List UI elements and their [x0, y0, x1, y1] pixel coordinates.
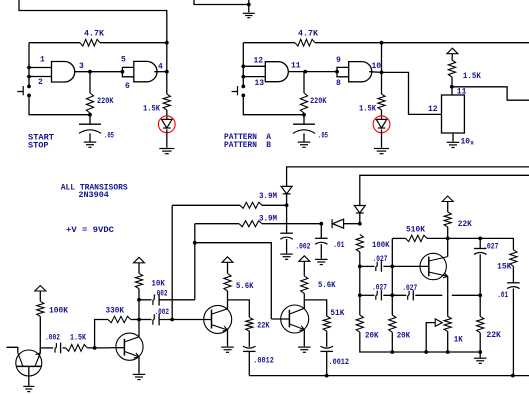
junction capsline n2	[390, 293, 394, 297]
capacitor C .01 right	[507, 283, 520, 289]
svg-text:1K: 1K	[454, 335, 463, 344]
resistor R 1.5K left	[163, 94, 170, 110]
svg-text:22K: 22K	[458, 220, 472, 229]
wire 15K to cap	[512, 266, 514, 283]
junction pin3 node	[88, 70, 92, 74]
wire 3.9M-2 vertical	[194, 224, 196, 300]
wire 10K to node	[138, 289, 140, 300]
svg-text:100K: 100K	[49, 306, 68, 315]
junction bus n4	[478, 350, 482, 354]
wire 4.7K R2 line	[243, 42, 295, 44]
junction .01 node	[319, 222, 323, 226]
wire .002 to ground	[286, 239, 288, 253]
switch S2 contact bottom	[241, 94, 245, 98]
resistor R 1.5K right	[378, 94, 385, 110]
svg-text:4.7K: 4.7K	[298, 30, 318, 39]
wire pin13 stub	[243, 76, 265, 78]
svg-text:STOP: STOP	[28, 141, 49, 150]
resistor R 22K q3 branch	[246, 317, 253, 331]
junction pin2 node	[27, 75, 31, 79]
wire 20K-2 bottom	[391, 332, 393, 352]
wire cap1 lead	[89, 115, 91, 125]
svg-text:220K: 220K	[310, 97, 327, 106]
wire Q1 base stem	[28, 366, 30, 386]
capacitor C .002 osc bottom	[153, 314, 159, 326]
capacitor C .027 base	[376, 261, 382, 272]
resistor R 5.6K first	[224, 273, 231, 291]
wire cap2 lead	[303, 115, 305, 125]
wire 1.5K to box	[451, 77, 453, 95]
resistor R 22K top	[444, 212, 451, 227]
wire Q4 base	[271, 318, 289, 320]
svg-text:22K: 22K	[486, 331, 501, 340]
transistor Q3	[204, 305, 232, 333]
wire .01 to ground	[320, 244, 322, 259]
ground Q3	[221, 347, 234, 352]
svg-text:10: 10	[372, 62, 382, 71]
capacitor C .027 couple1	[376, 290, 382, 300]
wire cap2 to ground	[303, 133, 305, 142]
wire capsline seg1	[360, 294, 375, 296]
resistor R 20K first	[356, 315, 363, 332]
wire capsline seg4	[452, 294, 480, 296]
wire 1K bottom	[447, 331, 449, 352]
wire pot wiper	[426, 323, 435, 352]
svg-text:20K: 20K	[397, 331, 411, 340]
wire right input vertical	[242, 43, 244, 86]
svg-text:.002: .002	[295, 242, 310, 251]
svg-text:.0012: .0012	[329, 358, 350, 367]
switch S1 contact bottom	[27, 94, 31, 98]
wire 22K to node	[447, 227, 449, 238]
ground top-center	[243, 13, 255, 17]
svg-text:510K: 510K	[406, 226, 425, 235]
wire cap4 lead	[139, 299, 152, 301]
potentiometer box 10K	[442, 95, 465, 133]
svg-text:.027: .027	[402, 284, 417, 293]
svg-text:10x: 10x	[461, 137, 475, 146]
junction capsline n1	[358, 293, 362, 297]
svg-text:330K: 330K	[106, 306, 125, 315]
wire cap5 right	[159, 319, 211, 321]
junction pin4 node	[165, 70, 169, 74]
junction bus n1	[390, 350, 394, 354]
wire 20K-1 bottom	[360, 332, 393, 352]
ground pot box	[447, 142, 460, 147]
junction bus n2	[424, 350, 428, 354]
svg-text:.01: .01	[333, 241, 345, 250]
wire bottom rail	[249, 375, 529, 377]
wire Q1 right pin	[39, 348, 41, 353]
capacitor C .027 couple2	[408, 290, 414, 300]
+V arrow 10K	[134, 257, 145, 263]
ground cap1	[84, 142, 97, 147]
junction cap1 node	[88, 113, 92, 117]
wire 4.7K R1 line	[29, 42, 80, 44]
wire cap1 to ground	[89, 133, 91, 142]
diode D4	[354, 206, 365, 214]
wire 4.7K R1 line right	[100, 42, 167, 44]
wire gate2 output	[154, 71, 167, 73]
svg-text:9: 9	[336, 56, 341, 65]
resistor R 220K right	[300, 93, 307, 113]
wire 5.6K-1 to collector	[227, 291, 229, 300]
svg-text:4.7K: 4.7K	[84, 30, 104, 39]
junction capsline n3	[478, 293, 482, 297]
junction pin13 node	[241, 75, 245, 79]
wire 330K right	[131, 319, 139, 321]
svg-text:22K: 22K	[257, 321, 270, 330]
resistor R 1.5K pot feed	[448, 60, 455, 77]
gate U1a pins 1,2-3	[52, 62, 75, 83]
wire 510K left	[392, 237, 405, 239]
svg-text:2N3904: 2N3904	[78, 191, 109, 200]
wire collector chain 1	[40, 347, 53, 349]
switch S1 plunger	[17, 86, 23, 95]
capacitor C .05 right	[293, 124, 315, 133]
svg-text:1.5K: 1.5K	[143, 104, 160, 113]
wire capsline seg3	[415, 294, 442, 296]
junction 510K-base cross	[390, 265, 394, 269]
wire LED to ground	[166, 129, 168, 147]
wire top-center stub up	[248, 0, 250, 12]
junction cap2 node	[302, 113, 306, 117]
wire +V to 5.6K-1	[227, 262, 229, 273]
svg-text:1.5K: 1.5K	[70, 333, 86, 342]
svg-text:5.6K: 5.6K	[236, 282, 254, 291]
junction pin1 node	[27, 66, 31, 70]
junction Q2 coll n2	[137, 298, 141, 302]
wire rail B	[360, 175, 529, 205]
junction rail n2	[511, 374, 515, 378]
ground Q2	[133, 374, 146, 379]
wire left input vertical	[28, 43, 30, 86]
ground .01 cap	[315, 259, 328, 264]
svg-text:10K: 10K	[151, 279, 165, 288]
resistor R 100K first	[37, 301, 44, 316]
ground cap2	[298, 142, 311, 147]
wire .0012-1 to rail	[248, 351, 250, 375]
wire cap5 lead	[139, 319, 152, 321]
transistor Q4	[281, 305, 309, 333]
wire gate3 output	[288, 71, 337, 73]
wire pin4 vertical	[166, 43, 168, 94]
wire .027v to node	[479, 254, 481, 295]
wire Q3 emitter down	[227, 330, 229, 346]
LED D1 diode	[162, 119, 173, 128]
svg-text:2: 2	[38, 78, 43, 87]
wire 510K vertical	[391, 238, 393, 295]
junction Q2 base node	[93, 346, 97, 350]
resistor R 10K	[135, 273, 142, 288]
wire Q4 collector up	[303, 300, 305, 308]
wire 510K right	[427, 238, 513, 249]
svg-text:12: 12	[428, 105, 438, 114]
wire top-left loop from off-page	[19, 0, 167, 43]
wire cap to Q5 base	[383, 265, 428, 267]
diode D3	[281, 186, 292, 194]
svg-text:.002: .002	[155, 308, 170, 317]
svg-text:3.9M: 3.9M	[259, 192, 277, 201]
svg-text:.01: .01	[497, 291, 508, 300]
switch S2 plunger	[232, 86, 238, 95]
wire capsline seg2	[383, 294, 406, 296]
svg-text:.002: .002	[45, 333, 60, 342]
junction Q3 base node	[170, 318, 174, 322]
wire LED2 to ground	[381, 129, 383, 147]
resistor R 51K q4 branch	[323, 316, 330, 331]
resistor R 3.9M first	[240, 202, 262, 208]
wire Q2 collector up	[138, 300, 140, 337]
wire 22K-2 top	[479, 295, 481, 316]
wire 330K vertical	[95, 320, 108, 348]
gate U1d pins 9,8-10	[349, 62, 372, 82]
svg-text:11: 11	[291, 61, 301, 70]
+V arrow 5.6K-2	[299, 256, 310, 261]
svg-text:.05: .05	[318, 132, 328, 141]
junction pin10 node	[380, 71, 384, 75]
wire Q2 emitter down	[138, 357, 140, 374]
wire chain 3	[87, 347, 110, 349]
svg-text:.05: .05	[104, 132, 114, 141]
wire box bottom	[452, 133, 454, 142]
svg-text:1.5K: 1.5K	[359, 104, 376, 113]
svg-text:5: 5	[121, 56, 126, 65]
junction 4.7K right node	[380, 41, 384, 45]
wire 20K-2 top	[391, 295, 393, 315]
wire 4.7K R2 line right	[315, 42, 529, 44]
svg-text:100K: 100K	[372, 241, 390, 250]
svg-text:.027: .027	[373, 255, 388, 264]
capacitor C .01	[315, 238, 328, 244]
wire bus gnd lead	[479, 352, 481, 358]
wire 220K2 top	[303, 72, 305, 93]
wire 220K top	[89, 72, 91, 93]
gate U1b pins 5,6-4	[134, 61, 157, 81]
resistor R 22K right	[477, 316, 484, 332]
resistor R 510K	[406, 235, 427, 241]
switch S2 contact top	[241, 85, 245, 89]
junction gate2 input node	[121, 70, 125, 74]
wire Q3 collector up	[227, 300, 229, 309]
junction pin11 node	[303, 70, 307, 74]
resistor R 1.5K chain	[66, 345, 88, 352]
wire bottom bus	[392, 351, 480, 353]
wire +V to 100K	[39, 291, 41, 301]
svg-text:51K: 51K	[330, 309, 344, 318]
resistor R 1K pot	[444, 316, 451, 331]
pot wiper arrow	[435, 319, 442, 326]
wire D3 node to cap	[286, 205, 288, 233]
LED D2 diode	[376, 119, 387, 128]
wire gate4 output	[369, 71, 381, 74]
resistor R 5.6K second	[301, 276, 308, 294]
capacitor C .027 vertical	[474, 249, 487, 255]
capacitor C .0012 second	[320, 346, 333, 351]
svg-text:1: 1	[40, 56, 45, 65]
svg-text:3: 3	[79, 62, 84, 71]
wire Q2 base	[110, 347, 124, 349]
resistor R 220K left	[86, 93, 93, 113]
svg-text:.0012: .0012	[253, 356, 274, 365]
resistor R 4.7K left	[80, 39, 100, 46]
resistor R 3.9M second	[239, 221, 262, 227]
wire switch to cap node	[29, 95, 90, 114]
capacitor C .002 couple	[55, 343, 61, 354]
transistor Q1	[16, 350, 42, 376]
wire top-center from off-page	[194, 0, 249, 5]
wire 5.6K-2 to collector	[303, 293, 305, 300]
+V arrow 5.6K-1	[222, 257, 233, 263]
wire D4 to node	[359, 214, 361, 224]
svg-text:+V = 9VDC: +V = 9VDC	[66, 226, 114, 235]
junction gate4 input node	[335, 70, 339, 74]
ground .002 cap	[280, 254, 293, 259]
wire Q4 branch	[304, 300, 326, 316]
wire .01 lead	[320, 224, 322, 239]
resistor R 20K second	[389, 315, 396, 332]
ground Q1	[23, 386, 34, 391]
resistor R 15K	[510, 250, 517, 267]
wire pin10 vertical	[381, 43, 383, 94]
+V arrow top right	[447, 48, 458, 54]
wire Q3 branch	[228, 300, 250, 317]
junction rail n1	[325, 374, 329, 378]
wire pin1 stub	[29, 67, 52, 69]
gate U1b input bracket	[122, 67, 133, 76]
junction top-center	[247, 3, 251, 7]
wire 3.9M-1 right	[262, 204, 287, 206]
wire node down	[359, 266, 361, 295]
junction Q2 coll n1	[137, 318, 141, 322]
switch S1 contact top	[27, 85, 31, 89]
resistor R 100K right section	[356, 234, 363, 252]
wire chain 2	[63, 347, 66, 349]
transistor Q5	[420, 253, 448, 279]
wire q4 branch to cap	[326, 331, 328, 347]
wire rail A	[287, 167, 529, 186]
svg-text:6: 6	[125, 82, 130, 91]
junction 3.9M-1 node	[285, 203, 289, 207]
wire +V to 22K	[447, 202, 449, 212]
wire D5 to node	[344, 223, 360, 225]
wire .027v lead	[479, 238, 481, 248]
svg-text:220K: 220K	[97, 97, 114, 106]
junction pot top node	[450, 85, 454, 89]
wire pin12 stub	[243, 65, 265, 67]
ground LED right	[374, 149, 389, 154]
wire D3 to 3.9M node	[286, 195, 288, 206]
wire 100K to node	[359, 252, 361, 266]
LED D2 red circle	[373, 116, 390, 133]
svg-text:.002: .002	[153, 289, 168, 298]
gate U1d input bracket	[337, 67, 349, 76]
wire cross to Q4 base	[195, 243, 271, 319]
capacitor C .002 under diode	[280, 233, 293, 239]
wire Q4 emitter down	[303, 330, 305, 347]
wire .0012-2 to rail	[326, 351, 328, 375]
wire 3.9M-1 left	[172, 204, 240, 206]
wire .01r to rail	[512, 288, 514, 375]
svg-text:PATTERN B: PATTERN B	[224, 141, 271, 150]
wire Q5 collector	[447, 238, 449, 256]
svg-text:.027: .027	[483, 242, 499, 251]
wire 3.9M-1 vertical	[171, 205, 173, 319]
LED D1 red circle	[158, 116, 175, 133]
junction cross wire node	[193, 241, 197, 245]
gate U1c pins 12,13-11	[265, 62, 288, 82]
svg-text:8: 8	[336, 79, 341, 88]
ground bus	[474, 358, 487, 363]
wire 3.9M-2 left	[195, 223, 239, 225]
wire pin10 to pot box	[382, 72, 442, 114]
wire +V to 1.5K	[451, 54, 453, 60]
svg-text:13: 13	[255, 79, 265, 88]
wire pin2 stub	[29, 76, 52, 78]
+V arrow 22K	[442, 196, 453, 202]
junction collector node	[446, 237, 450, 241]
ground LED left	[159, 149, 174, 154]
wire 3.9M-2 right	[262, 223, 321, 225]
wire 1.5K2 to LED	[381, 110, 383, 119]
junction diode node	[358, 222, 362, 226]
wire 20K-1 top	[359, 295, 361, 315]
wire to off-page right	[452, 87, 529, 100]
wire +V to 5.6K-2	[303, 261, 305, 276]
wire 22K-2 bottom	[479, 333, 481, 352]
svg-text:3.9M: 3.9M	[259, 214, 277, 223]
svg-text:5.6K: 5.6K	[318, 281, 336, 290]
resistor R 330K	[108, 316, 131, 322]
wire 100K to collector	[39, 316, 41, 352]
wire switch2 to cap node	[243, 95, 304, 114]
junction 510K node2	[478, 237, 482, 241]
wire Q1 left pin	[7, 347, 18, 353]
svg-text:4: 4	[158, 62, 163, 71]
wire q3 branch to cap	[248, 331, 250, 347]
transistor Q2	[116, 333, 143, 360]
junction 100K bottom node	[358, 265, 362, 269]
svg-text:15K: 15K	[497, 263, 512, 272]
capacitor C .05 left	[79, 124, 101, 133]
wire gate1 output	[75, 71, 123, 73]
junction pin12 node	[241, 64, 245, 68]
capacitor C .002 osc top	[153, 294, 159, 306]
svg-text:20K: 20K	[365, 331, 379, 340]
wire cap4 right	[159, 299, 194, 301]
svg-text:.027: .027	[372, 284, 387, 293]
resistor R 4.7K right	[295, 39, 315, 46]
+V arrow 100K	[35, 286, 46, 292]
junction bus n3	[446, 350, 450, 354]
wire .027 lead	[360, 265, 375, 267]
wire Q5 emitter	[447, 276, 449, 316]
svg-text:1.5K: 1.5K	[463, 72, 481, 81]
ground Q4	[298, 347, 311, 352]
capacitor C .0012 first	[243, 346, 256, 351]
svg-text:12: 12	[254, 56, 264, 65]
diode D5	[332, 219, 344, 228]
junction 4.7K right end	[165, 41, 169, 45]
wire +V to 10K	[138, 263, 140, 274]
wire 1.5K to LED	[166, 110, 168, 119]
